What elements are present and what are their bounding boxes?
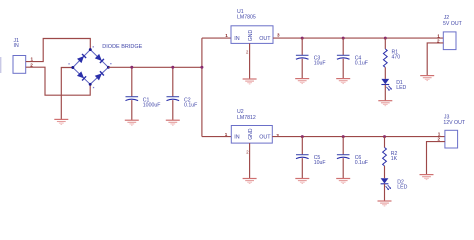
label DIODE BRIDGE [102,44,142,50]
wire C6 upper [342,137,344,155]
junction C1 tap [130,66,133,69]
bridge terminal marks [68,46,111,88]
LED D1 [381,79,392,91]
node top [89,48,92,51]
svg-text:LM7812: LM7812 [237,115,256,121]
svg-text:IN: IN [234,36,239,42]
pin 1 label U2 [225,132,228,137]
connector J3 [445,130,458,148]
junction C4 tap [342,37,345,40]
junction R2 tap [383,135,386,138]
wire C1 lower [131,100,133,120]
svg-text:10uF: 10uF [314,61,326,67]
svg-text:12V OUT: 12V OUT [443,120,465,126]
wire D2 to ground [384,184,386,201]
regulator U2 box [231,126,272,144]
ground (C1) [125,120,139,125]
wire U1 gnd pin [249,43,251,79]
svg-text:LED: LED [396,85,406,91]
svg-text:1K: 1K [391,156,398,162]
wire C5 lower [301,158,303,178]
label J1 [14,38,20,44]
junction C2 tap [171,66,174,69]
diode D-BL (left to bottom) [77,71,86,80]
svg-text:1: 1 [225,33,228,38]
wire C3 upper [301,38,303,55]
pin 2 label J3 [438,137,441,142]
label C1 [143,97,150,103]
svg-text:IN: IN [14,43,19,49]
label 0.1uF (C6) [355,160,368,166]
wire R2 upper [384,137,386,148]
ground (U2) [243,179,257,184]
U2 OUT text [259,135,271,141]
capacitor C5 [296,155,309,159]
U1 IN text [234,36,239,42]
wire D1 to ground [384,85,386,101]
edge sliver artifact [0,57,1,73]
junction R1 tap [384,37,387,40]
svg-text:1000uF: 1000uF [143,102,161,108]
wire C1 upper [131,67,133,96]
wire C6 lower [342,158,344,178]
pin 2 label J1 [30,63,33,68]
svg-text:IN: IN [234,135,239,141]
wire C5 upper [301,137,303,155]
capacitor C3 [296,55,309,59]
connector J1 [13,56,26,74]
node bottom [89,83,92,86]
svg-text:3: 3 [277,33,280,38]
wire J1 pin1 to bridge top [26,39,91,62]
label 1K [391,156,398,162]
label LED (D2) [397,185,407,191]
svg-text:1: 1 [438,131,441,136]
wire bridge left node to ground [61,68,73,120]
ground (J3) [420,175,434,180]
pin 2 label J2 [437,39,440,44]
capacitor C4 [337,55,350,59]
label IN [14,43,19,49]
label 470 [392,55,401,61]
label C2 [184,97,191,103]
ground (D2) [378,201,392,206]
label D2 [397,180,404,186]
svg-text:DIODE BRIDGE: DIODE BRIDGE [102,44,142,50]
wire J2 pin2 to ground [427,43,443,76]
wire C2 lower [172,100,174,120]
svg-text:LED: LED [397,185,407,191]
ground (bridge negative) [54,119,68,124]
resistor R1 [383,49,387,68]
label C4 [355,56,362,62]
wire to U2 pin1 [202,136,231,138]
diode bridge frame [73,50,109,85]
svg-text:3: 3 [276,133,279,138]
wire C4 upper [342,38,344,55]
wire main rail bridge to split [108,66,201,68]
label J3 [444,114,450,120]
junction C3 tap [301,37,304,40]
label C3 [314,56,321,62]
ground (D1) [378,101,392,106]
wire vertical feed [201,38,203,137]
pin 1 label J1 [31,57,34,62]
resistor R2 [383,148,387,166]
ground (C5) [295,179,309,184]
pin 3 label U1 [277,33,280,38]
wire C3 lower [301,59,303,79]
pin 2 label U2 [246,150,249,155]
diode D-TL (left to top) [77,54,86,63]
wire R1 upper [384,38,386,49]
junction feed split [200,66,203,69]
pin 1 label J3 [438,131,441,136]
label C5 [314,155,321,161]
svg-text:2: 2 [438,137,441,142]
junction C6 tap [342,135,345,138]
label 0.1uF (C2) [184,102,197,108]
diode D-BR (bottom to right) [95,71,104,80]
svg-text:OUT: OUT [259,135,271,141]
label U1 [237,9,244,15]
U1 GND text [248,30,254,42]
svg-text:1: 1 [31,57,34,62]
U1 OUT text [259,36,271,42]
svg-text:GND: GND [248,30,254,42]
label J2 [444,15,450,21]
svg-text:OUT: OUT [259,36,271,42]
ground (C6) [336,179,350,184]
label R2 [391,151,398,157]
pin 1 label J2 [437,33,440,38]
ground (U1) [243,79,257,84]
ground (C2) [166,120,180,125]
svg-text:GND: GND [248,128,254,140]
pin 2 label U1 [246,49,249,54]
label 10uF (C3) [314,61,326,67]
node right [107,66,110,69]
label LM7812 [237,115,256,121]
label LM7805 [237,15,256,21]
svg-text:10uF: 10uF [314,160,326,166]
svg-text:LM7805: LM7805 [237,15,256,21]
svg-text:0.1uF: 0.1uF [355,61,368,67]
wire J3 pin2 to ground [427,142,445,175]
wire R2 to D2 [384,166,386,178]
svg-text:0.1uF: 0.1uF [355,160,368,166]
wire U2 gnd pin [249,143,251,178]
label 0.1uF (C4) [355,61,368,67]
capacitor C1 [126,97,139,101]
LED D2 [381,178,392,190]
label C6 [355,155,362,161]
svg-text:470: 470 [392,55,401,61]
pin 3 label U2 [276,133,279,138]
pin 1 label U1 [225,33,228,38]
wire J1 pin2 to bridge bottom [26,67,91,95]
label D1 [396,80,403,86]
U2 IN text [234,135,239,141]
wire C2 upper [172,67,174,96]
label 5V OUT [443,21,463,27]
regulator U1 box [231,26,273,44]
label 10uF (C5) [314,160,326,166]
ground (C3) [295,79,309,84]
ground (J2) [420,76,434,81]
capacitor C6 [337,155,350,159]
wire 5V rail [273,37,443,39]
U2 GND text [248,128,254,140]
label LED (D1) [396,85,406,91]
node left [71,66,74,69]
svg-text:0.1uF: 0.1uF [184,102,197,108]
diode D-TR (top to right) [95,54,104,63]
label 1000uF [143,102,161,108]
label U2 [237,109,244,115]
connector J2 [443,32,456,50]
label R1 [392,50,399,56]
wire 12V rail [272,136,445,138]
wire R1 to D1 [384,67,386,79]
wire C4 lower [342,59,344,79]
junction C5 tap [301,135,304,138]
capacitor C2 [167,97,180,101]
ground (C4) [336,79,350,84]
svg-text:5V OUT: 5V OUT [443,21,463,27]
wire to U1 pin1 [202,37,231,39]
label 12V OUT [443,120,465,126]
svg-text:1: 1 [225,132,228,137]
